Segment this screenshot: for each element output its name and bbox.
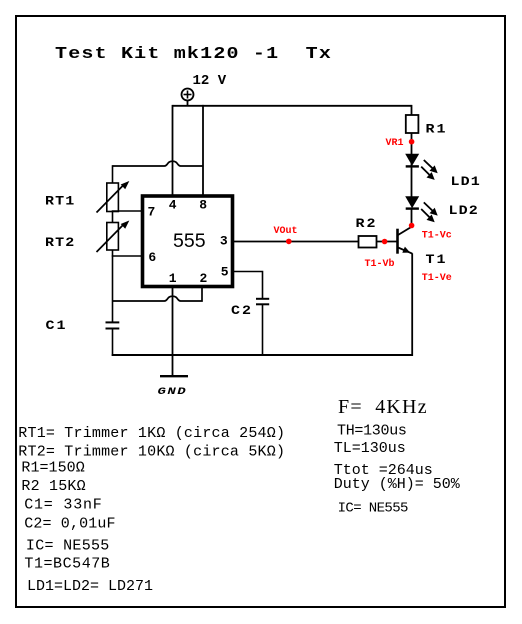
- svg-text:Duty (%H)= 50%: Duty (%H)= 50%: [334, 476, 461, 493]
- svg-text:T1-Vc: T1-Vc: [422, 231, 452, 242]
- svg-text:C1= 33nF: C1= 33nF: [24, 497, 102, 514]
- svg-text:C2: C2: [231, 304, 253, 319]
- svg-text:LD2: LD2: [449, 204, 479, 219]
- svg-text:T1-Vb: T1-Vb: [365, 258, 395, 270]
- svg-text:4: 4: [169, 198, 177, 213]
- svg-text:5: 5: [221, 265, 229, 280]
- svg-text:TL=130us: TL=130us: [334, 440, 406, 457]
- svg-text:VR1: VR1: [386, 138, 404, 149]
- svg-text:R1: R1: [426, 122, 448, 137]
- svg-text:RT1: RT1: [45, 194, 75, 209]
- svg-text:IC= NE555: IC= NE555: [26, 538, 110, 555]
- svg-text:12 V: 12 V: [193, 73, 227, 89]
- svg-text:VOut: VOut: [274, 226, 298, 237]
- svg-text:T1: T1: [426, 253, 448, 268]
- svg-text:R2: R2: [356, 217, 378, 232]
- svg-text:8: 8: [199, 198, 207, 213]
- svg-text:T1-Ve: T1-Ve: [422, 273, 452, 284]
- svg-text:1: 1: [169, 271, 177, 286]
- svg-text:LD1: LD1: [451, 175, 481, 190]
- svg-text:T1=BC547B: T1=BC547B: [24, 556, 110, 573]
- svg-text:C1: C1: [46, 319, 68, 334]
- svg-text:555: 555: [173, 230, 206, 252]
- svg-text:RT2: RT2: [45, 236, 75, 251]
- svg-text:RT2= Trimmer 10KΩ (circa 5KΩ): RT2= Trimmer 10KΩ (circa 5KΩ): [18, 444, 285, 461]
- svg-text:7: 7: [148, 205, 156, 220]
- svg-text:C2= 0,01uF: C2= 0,01uF: [24, 516, 116, 533]
- svg-text:6: 6: [148, 250, 156, 265]
- svg-text:R2 15KΩ: R2 15KΩ: [21, 478, 85, 495]
- svg-text:TH=130us: TH=130us: [337, 423, 407, 440]
- svg-text:2: 2: [200, 271, 208, 286]
- svg-text:F= 4KHz: F= 4KHz: [338, 396, 428, 418]
- svg-text:RT1= Trimmer 1KΩ (circa 254Ω): RT1= Trimmer 1KΩ (circa 254Ω): [18, 425, 285, 442]
- svg-text:Test Kit mk120 -1 Tx: Test Kit mk120 -1 Tx: [55, 44, 332, 63]
- svg-text:GND: GND: [158, 386, 188, 398]
- svg-text:3: 3: [220, 234, 228, 249]
- svg-text:R1=150Ω: R1=150Ω: [21, 460, 84, 477]
- svg-text:LD1=LD2= LD271: LD1=LD2= LD271: [27, 578, 153, 595]
- svg-text:IC= NE555: IC= NE555: [338, 501, 408, 517]
